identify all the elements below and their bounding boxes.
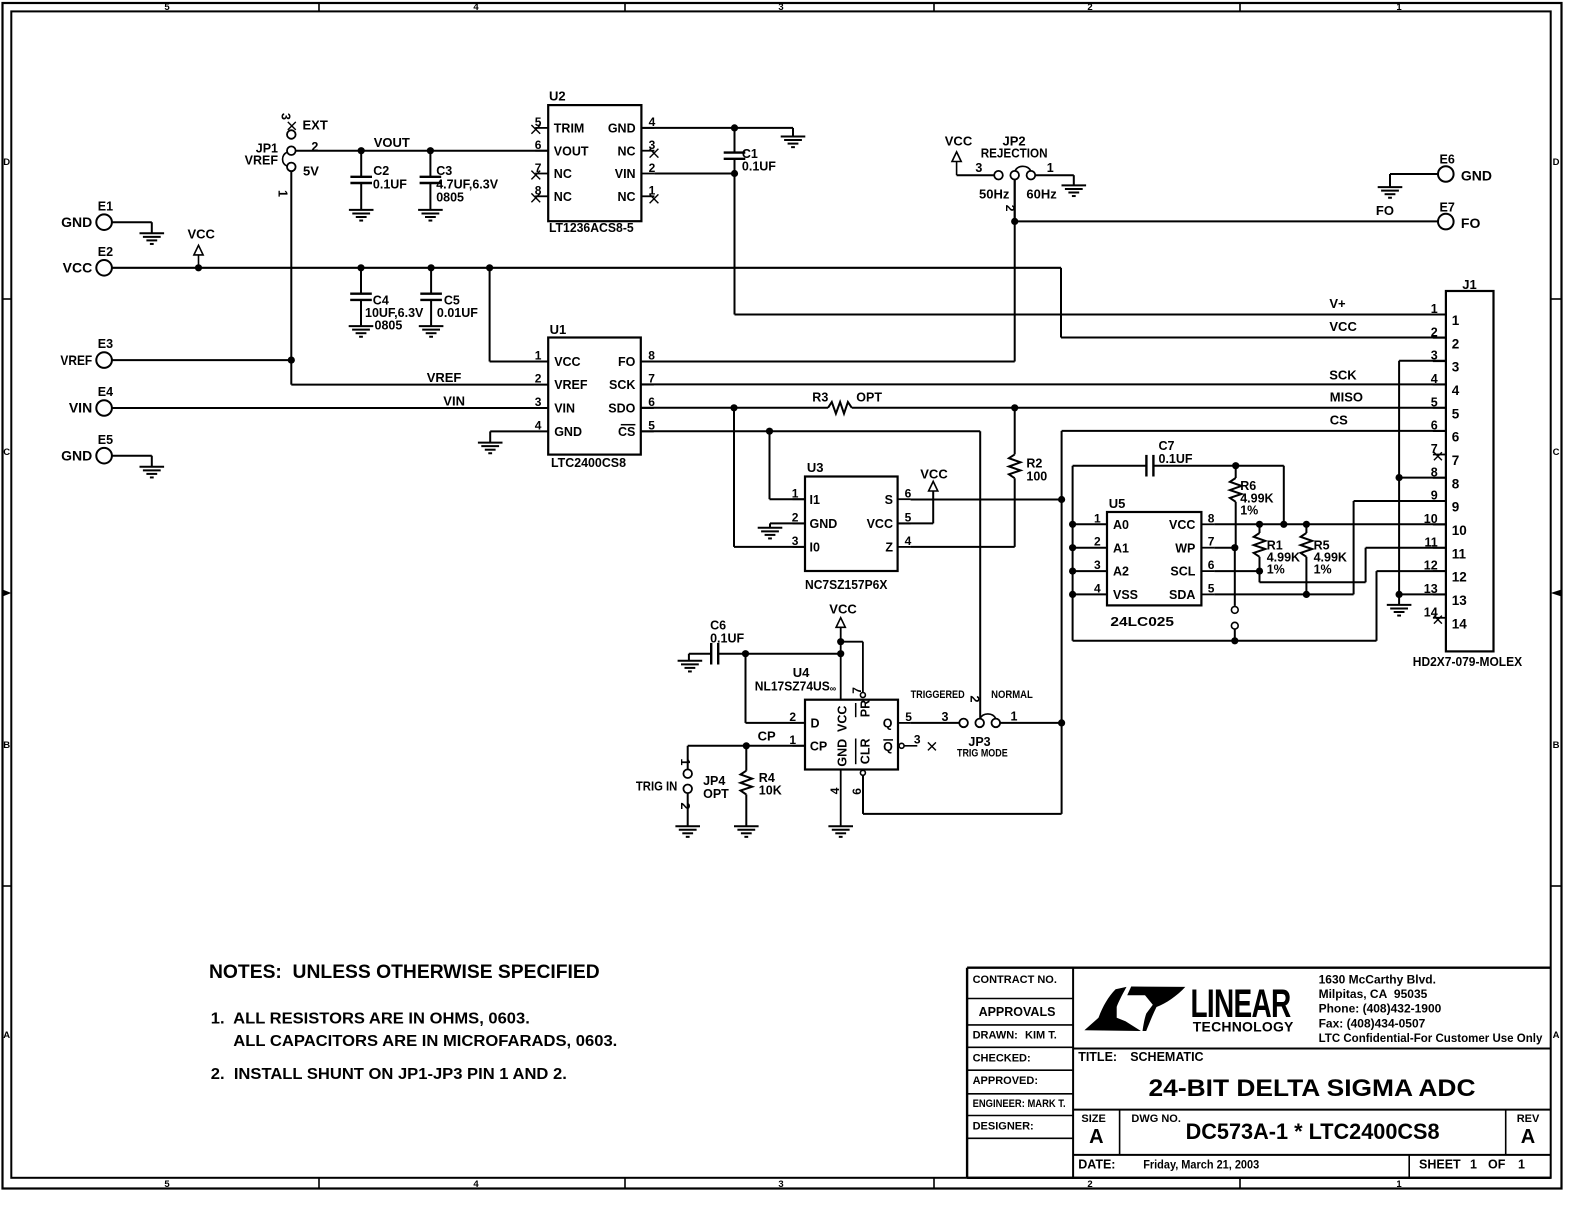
svg-text:4: 4: [905, 534, 912, 548]
svg-text:3: 3: [975, 161, 982, 175]
svg-text:6: 6: [535, 138, 542, 152]
svg-text:4: 4: [1094, 581, 1101, 595]
svg-text:NOTES: UNLESS OTHERWISE SPECI: NOTES: UNLESS OTHERWISE SPECIFIED: [209, 961, 600, 983]
svg-text:VCC: VCC: [1329, 319, 1357, 334]
svg-text:3: 3: [535, 395, 542, 409]
svg-text:1: 1: [649, 184, 656, 198]
svg-text:CS: CS: [1330, 412, 1348, 427]
svg-text:1: 1: [1452, 313, 1460, 328]
svg-text:10K: 10K: [759, 784, 782, 798]
svg-text:NC: NC: [618, 190, 636, 204]
IC U2 LT1236ACS8-5: [531, 88, 658, 235]
svg-text:A: A: [3, 1030, 10, 1041]
svg-text:SDO: SDO: [608, 402, 635, 416]
svg-text:VREF: VREF: [554, 378, 588, 392]
resistor R3 OPT: [812, 390, 882, 413]
svg-text:I0: I0: [810, 541, 820, 555]
svg-text:E7: E7: [1440, 200, 1455, 214]
svg-text:A: A: [1521, 1126, 1535, 1148]
wire VIN net: [112, 394, 548, 409]
svg-text:0.01UF: 0.01UF: [437, 306, 478, 320]
svg-text:0.1UF: 0.1UF: [373, 177, 407, 191]
svg-text:U1: U1: [550, 322, 567, 337]
wire CP net: [688, 729, 805, 770]
svg-text:8: 8: [1431, 465, 1438, 479]
wire VCC net: [112, 264, 1446, 337]
svg-text:14: 14: [1452, 616, 1468, 631]
svg-text:13: 13: [1452, 593, 1468, 608]
svg-text:HD2X7-079-MOLEX: HD2X7-079-MOLEX: [1413, 654, 1523, 669]
svg-text:1%: 1%: [1240, 504, 1258, 518]
svg-text:D: D: [1553, 157, 1560, 168]
wire J1 ground net: [1396, 361, 1446, 605]
svg-text:EXT: EXT: [303, 118, 328, 133]
svg-text:VCC: VCC: [867, 517, 893, 531]
power VCC (JP2): [945, 133, 973, 161]
svg-text:Z: Z: [885, 541, 893, 555]
svg-text:C6: C6: [710, 619, 726, 633]
svg-text:VCC: VCC: [920, 466, 948, 481]
svg-text:VCC: VCC: [63, 260, 93, 276]
svg-text:SCL: SCL: [1170, 565, 1195, 579]
svg-text:OPT: OPT: [703, 787, 729, 801]
svg-text:Phone: (408)432-1900: Phone: (408)432-1900: [1319, 1002, 1442, 1016]
svg-text:E6: E6: [1440, 153, 1455, 167]
svg-text:1: 1: [1011, 710, 1018, 724]
svg-text:ENGINEER: MARK T.: ENGINEER: MARK T.: [973, 1098, 1066, 1110]
svg-text:U3: U3: [807, 460, 824, 475]
capacitor C7: [1146, 439, 1193, 477]
svg-text:VCC: VCC: [1169, 518, 1195, 532]
svg-text:S: S: [885, 493, 893, 507]
svg-text:1: 1: [1094, 511, 1101, 525]
pad E2 VCC: [63, 245, 113, 276]
svg-text:FO: FO: [1461, 215, 1481, 231]
svg-text:3: 3: [914, 733, 921, 747]
svg-text:C2: C2: [373, 164, 389, 178]
svg-text:TECHNOLOGY: TECHNOLOGY: [1193, 1018, 1294, 1034]
svg-text:1: 1: [276, 190, 290, 197]
svg-text:CHECKED:: CHECKED:: [973, 1053, 1031, 1065]
wire U3 Z to R2: [911, 546, 1015, 548]
svg-text:1%: 1%: [1314, 563, 1332, 577]
title block: [967, 968, 1551, 1178]
svg-text:3: 3: [1452, 360, 1460, 375]
capacitor C1: [724, 128, 777, 174]
svg-text:4: 4: [473, 1179, 479, 1190]
svg-text:DWG NO.: DWG NO.: [1131, 1113, 1181, 1125]
svg-text:3: 3: [279, 113, 293, 120]
svg-text:U4: U4: [793, 665, 810, 680]
svg-text:1: 1: [1518, 1158, 1525, 1172]
svg-text:0805: 0805: [375, 318, 403, 332]
svg-text:1: 1: [792, 486, 799, 500]
svg-text:0.1UF: 0.1UF: [710, 631, 744, 645]
svg-text:APPROVALS: APPROVALS: [979, 1005, 1056, 1019]
svg-text:1: 1: [1047, 161, 1054, 175]
capacitor C2: [350, 151, 407, 210]
svg-text:0.1UF: 0.1UF: [1159, 452, 1193, 466]
svg-text:VIN: VIN: [69, 400, 92, 416]
svg-text:V+: V+: [1329, 296, 1346, 311]
svg-text:7: 7: [1452, 453, 1460, 468]
ground (E5): [140, 467, 165, 478]
jumper JP4 OPT: [636, 759, 729, 827]
wire U3 I0 branch: [734, 408, 805, 547]
svg-text:2: 2: [1087, 1179, 1092, 1190]
svg-text:VREF: VREF: [245, 154, 279, 168]
ground (J1): [1387, 605, 1412, 616]
svg-text:7: 7: [1431, 442, 1438, 456]
svg-text:1: 1: [678, 759, 692, 766]
svg-text:6: 6: [1431, 419, 1438, 433]
svg-text:GND: GND: [61, 447, 92, 463]
svg-text:11: 11: [1424, 535, 1437, 549]
svg-text:2. INSTALL SHUNT ON JP1-JP3 P: 2. INSTALL SHUNT ON JP1-JP3 PIN 1 AND 2.: [211, 1066, 567, 1083]
svg-text:KIM T.: KIM T.: [1025, 1030, 1057, 1042]
svg-text:I1: I1: [810, 493, 820, 507]
svg-text:VCC: VCC: [835, 706, 849, 732]
svg-text:C: C: [3, 447, 10, 458]
svg-text:E2: E2: [98, 245, 113, 259]
wire U2 VIN: [654, 173, 734, 175]
wire SDO/MISO net: [641, 390, 1446, 412]
resistor R6 4.99K: [1230, 466, 1274, 548]
pad E3 VREF: [60, 337, 113, 368]
resistor R2 100: [1009, 408, 1047, 547]
pad E5 GND: [61, 433, 152, 467]
svg-text:2: 2: [1087, 2, 1092, 13]
wire U5 SCL to J1 pin 11: [1214, 548, 1446, 583]
svg-text:J1: J1: [1462, 277, 1476, 292]
svg-text:LT1236ACS8-5: LT1236ACS8-5: [549, 220, 634, 235]
svg-text:4: 4: [1452, 383, 1460, 398]
svg-text:TRIG MODE: TRIG MODE: [957, 747, 1008, 759]
wire U3 S output: [911, 499, 1062, 501]
ground (U2 pin 4): [781, 137, 806, 148]
svg-text:9: 9: [1452, 500, 1460, 515]
svg-text:TRIM: TRIM: [554, 122, 585, 136]
svg-text:E5: E5: [98, 433, 113, 447]
Linear Technology logo: [1084, 982, 1294, 1034]
jumper JP3 TRIG MODE: [911, 689, 1033, 759]
ground (C5): [419, 326, 444, 337]
svg-text:TRIG IN: TRIG IN: [636, 779, 677, 793]
ground (R4): [734, 826, 759, 837]
svg-text:1: 1: [535, 349, 542, 363]
wire U1 VCC branch: [490, 268, 549, 362]
svg-text:∞: ∞: [830, 684, 837, 694]
svg-text:5V: 5V: [303, 164, 319, 179]
svg-text:4: 4: [473, 2, 479, 13]
svg-text:13: 13: [1424, 582, 1438, 596]
svg-text:12: 12: [1452, 570, 1467, 585]
wire VOUT net: [296, 135, 549, 154]
svg-text:2: 2: [1452, 336, 1460, 351]
svg-text:D: D: [3, 157, 10, 168]
notes: [209, 961, 617, 1083]
svg-text:APPROVED:: APPROVED:: [973, 1075, 1038, 1087]
svg-text:6: 6: [1452, 430, 1460, 445]
svg-text:VCC: VCC: [554, 355, 580, 369]
svg-text:SCK: SCK: [1329, 368, 1357, 383]
svg-text:3: 3: [1431, 349, 1438, 363]
svg-text:VOUT: VOUT: [374, 135, 410, 150]
svg-text:5: 5: [1208, 581, 1215, 595]
svg-text:10: 10: [1424, 512, 1438, 526]
wire U4 D input: [746, 654, 806, 723]
svg-text:1: 1: [1396, 2, 1402, 13]
svg-text:NC7SZ157P6X: NC7SZ157P6X: [805, 577, 888, 592]
svg-text:NORMAL: NORMAL: [991, 689, 1033, 701]
ground (U3 pin 2): [758, 528, 783, 539]
svg-text:VIN: VIN: [554, 402, 575, 416]
svg-text:VSS: VSS: [1113, 588, 1138, 602]
svg-text:CP: CP: [758, 729, 776, 744]
pad E6 GND: [1390, 153, 1492, 188]
svg-text:ALL CAPACITORS ARE IN MICROFAR: ALL CAPACITORS ARE IN MICROFARADS, 0603.: [233, 1033, 617, 1050]
jumper pads (WP to GND): [1231, 548, 1238, 641]
svg-text:10: 10: [1452, 523, 1467, 538]
resistor R4 10K: [741, 746, 782, 826]
resistor R1 4.99K: [1254, 524, 1300, 576]
wire CS net (J1/CLR): [863, 412, 1446, 814]
svg-text:6: 6: [905, 486, 912, 500]
svg-text:VCC: VCC: [188, 227, 216, 242]
svg-text:R3: R3: [812, 390, 828, 404]
svg-text:VCC: VCC: [945, 133, 973, 148]
svg-text:2: 2: [968, 696, 982, 703]
wire U4 PR branch: [837, 638, 865, 697]
connector J1 HD2X7-079-MOLEX: [1413, 277, 1523, 669]
svg-text:OF: OF: [1488, 1158, 1506, 1172]
svg-text:WP: WP: [1175, 541, 1195, 555]
svg-text:MISO: MISO: [1330, 390, 1363, 405]
ground (JP4): [675, 826, 700, 837]
svg-text:NC: NC: [618, 144, 636, 158]
power VCC (U4): [829, 602, 857, 700]
svg-text:Q: Q: [883, 716, 893, 730]
jumper JP2 REJECTION: [957, 133, 1074, 221]
svg-text:5: 5: [1431, 395, 1438, 409]
wire U5 VCC to J1 pin 10: [1214, 521, 1446, 528]
svg-text:6: 6: [1208, 558, 1215, 572]
svg-text:CP: CP: [810, 740, 827, 754]
svg-text:GND: GND: [554, 425, 582, 439]
svg-text:24LC025: 24LC025: [1110, 614, 1174, 629]
IC U5 24LC025: [1094, 496, 1215, 629]
svg-text:0.1UF: 0.1UF: [742, 160, 776, 174]
svg-text:3: 3: [778, 1179, 783, 1190]
svg-text:Friday, March 21, 2003: Friday, March 21, 2003: [1143, 1158, 1259, 1172]
capacitor C5: [420, 268, 478, 326]
IC U4 NL17SZ74US: [755, 665, 936, 795]
svg-text:NC: NC: [554, 167, 572, 181]
svg-text:4.7UF,6.3V: 4.7UF,6.3V: [436, 177, 499, 191]
svg-text:NC: NC: [554, 190, 572, 204]
ground (C4): [349, 326, 374, 337]
svg-text:2: 2: [1431, 325, 1438, 339]
svg-text:50Hz: 50Hz: [979, 186, 1010, 201]
pad E1 GND: [61, 199, 152, 233]
svg-text:C: C: [1553, 447, 1560, 458]
svg-text:B: B: [1553, 740, 1560, 751]
wire U5 WP: [1214, 544, 1238, 551]
svg-text:1%: 1%: [1267, 563, 1285, 577]
wire JP3 pin1 to CS: [1000, 722, 1062, 724]
svg-text:Fax: (408)434-0507: Fax: (408)434-0507: [1319, 1016, 1426, 1030]
svg-text:7: 7: [850, 687, 864, 694]
wire VREF net: [112, 171, 548, 385]
svg-text:3: 3: [1094, 558, 1101, 572]
wire U5 SDA to J1 pin 9: [1214, 501, 1446, 598]
svg-text:JP4: JP4: [703, 774, 725, 788]
svg-text:0805: 0805: [436, 190, 464, 204]
svg-text:GND: GND: [810, 517, 838, 531]
svg-text:A0: A0: [1113, 518, 1129, 532]
svg-text:TRIGGERED: TRIGGERED: [911, 689, 965, 701]
capacitor C6: [689, 619, 844, 665]
svg-text:C3: C3: [436, 164, 452, 178]
wire SCK net: [641, 368, 1446, 385]
svg-text:1. ALL RESISTORS ARE IN OHMS,: 1. ALL RESISTORS ARE IN OHMS, 0603.: [211, 1010, 530, 1027]
svg-text:VREF: VREF: [427, 370, 462, 385]
svg-text:E4: E4: [98, 385, 113, 399]
svg-text:C7: C7: [1159, 439, 1175, 453]
svg-text:2: 2: [535, 372, 542, 386]
svg-text:11: 11: [1452, 546, 1467, 561]
svg-text:Q: Q: [883, 740, 893, 754]
wire U3 I1 branch: [770, 431, 806, 499]
svg-text:3: 3: [778, 2, 783, 13]
svg-text:SDA: SDA: [1169, 588, 1195, 602]
svg-text:LTC2400CS8: LTC2400CS8: [551, 455, 626, 470]
ground (JP2 pin 1): [1062, 185, 1087, 196]
svg-text:NL17SZ74US: NL17SZ74US: [755, 679, 830, 693]
svg-text:SHEET: SHEET: [1419, 1158, 1461, 1172]
svg-text:PR: PR: [858, 700, 872, 717]
svg-text:CONTRACT NO.: CONTRACT NO.: [973, 974, 1057, 986]
ground (E1): [140, 233, 165, 244]
svg-text:5: 5: [164, 2, 170, 13]
wire U3 GND: [770, 523, 805, 527]
svg-text:1: 1: [1431, 302, 1438, 316]
svg-text:5: 5: [164, 1179, 170, 1190]
ground (U1 pin 4): [478, 443, 503, 454]
svg-text:LTC Confidential-For Customer: LTC Confidential-For Customer Use Only: [1319, 1031, 1543, 1045]
svg-text:DESIGNER:: DESIGNER:: [973, 1120, 1034, 1132]
svg-text:Milpitas, CA 95035: Milpitas, CA 95035: [1319, 987, 1428, 1001]
svg-text:B: B: [3, 740, 10, 751]
svg-text:A: A: [1553, 1030, 1560, 1041]
IC U1 LTC2400CS8: [535, 322, 655, 470]
capacitor C3: [420, 151, 499, 210]
wire U5 ground bus: [1069, 466, 1446, 645]
svg-text:3: 3: [649, 138, 656, 152]
jumper JP1 VREF: [245, 113, 328, 197]
svg-text:2: 2: [311, 140, 318, 154]
svg-text:7: 7: [1208, 535, 1215, 549]
svg-text:A: A: [1089, 1126, 1103, 1148]
svg-text:FO: FO: [1376, 203, 1394, 218]
svg-text:FO: FO: [618, 355, 636, 369]
svg-text:9: 9: [1431, 489, 1438, 503]
power VCC (E2): [188, 227, 216, 268]
svg-text:5: 5: [905, 710, 912, 724]
svg-text:24-BIT DELTA SIGMA ADC: 24-BIT DELTA SIGMA ADC: [1149, 1075, 1476, 1102]
svg-text:A1: A1: [1113, 541, 1129, 555]
svg-text:DC573A-1 * LTC2400CS8: DC573A-1 * LTC2400CS8: [1186, 1119, 1440, 1144]
svg-text:2: 2: [1094, 535, 1101, 549]
wire CS net (U1 to JP3): [641, 428, 980, 719]
svg-text:1: 1: [1396, 1179, 1402, 1190]
svg-text:R2: R2: [1026, 457, 1042, 471]
wire FO net: [641, 179, 1438, 361]
svg-text:8: 8: [1208, 511, 1215, 525]
svg-text:REJECTION: REJECTION: [981, 147, 1048, 161]
wire U1 GND: [490, 431, 548, 442]
svg-text:SCK: SCK: [609, 378, 635, 392]
svg-text:8: 8: [1452, 476, 1460, 491]
pad E7 FO: [1438, 200, 1480, 231]
svg-text:100: 100: [1026, 470, 1047, 484]
svg-text:REV: REV: [1517, 1113, 1540, 1125]
power VCC (U3): [898, 466, 949, 523]
svg-text:4: 4: [1431, 372, 1438, 386]
svg-text:GND: GND: [61, 214, 92, 230]
svg-text:CS: CS: [618, 425, 635, 439]
capacitor C4: [350, 268, 424, 333]
wire C7/VCC net: [1073, 462, 1288, 528]
svg-text:OPT: OPT: [856, 390, 882, 404]
svg-text:E1: E1: [98, 199, 113, 213]
svg-text:60Hz: 60Hz: [1026, 186, 1057, 201]
svg-text:U2: U2: [549, 88, 566, 103]
svg-text:A2: A2: [1113, 565, 1129, 579]
pad E4 VIN: [69, 385, 113, 416]
ground (C6): [678, 661, 703, 672]
svg-text:E3: E3: [98, 337, 113, 351]
svg-text:VIN: VIN: [615, 167, 636, 181]
ground (E6): [1378, 187, 1403, 198]
wire U4 Q to JP3: [911, 722, 960, 724]
svg-text:DRAWN:: DRAWN:: [973, 1030, 1018, 1042]
IC U3 NC7SZ157P6X: [792, 460, 912, 592]
svg-text:SIZE: SIZE: [1081, 1113, 1105, 1125]
svg-text:1630 McCarthy Blvd.: 1630 McCarthy Blvd.: [1319, 973, 1436, 987]
resistor R5 4.99K: [1301, 524, 1347, 594]
svg-text:TITLE:: TITLE:: [1078, 1050, 1117, 1064]
svg-text:VIN: VIN: [443, 394, 465, 409]
svg-text:6: 6: [850, 788, 864, 795]
svg-text:DATE:: DATE:: [1078, 1158, 1115, 1172]
ground (C3): [418, 210, 443, 221]
svg-text:2: 2: [789, 710, 796, 724]
svg-text:U5: U5: [1109, 496, 1126, 511]
svg-text:CLR: CLR: [858, 738, 872, 764]
ground (U4 pin 4): [828, 826, 853, 837]
svg-text:1: 1: [789, 733, 796, 747]
svg-text:SCHEMATIC: SCHEMATIC: [1130, 1050, 1203, 1064]
svg-text:12: 12: [1424, 559, 1438, 573]
svg-text:1: 1: [1470, 1158, 1477, 1172]
svg-text:VCC: VCC: [829, 602, 857, 617]
svg-text:D: D: [811, 716, 820, 730]
wire U4 GND pin: [840, 770, 842, 827]
svg-text:GND: GND: [835, 739, 849, 767]
ground (C2): [349, 210, 374, 221]
svg-text:GND: GND: [1461, 167, 1492, 183]
